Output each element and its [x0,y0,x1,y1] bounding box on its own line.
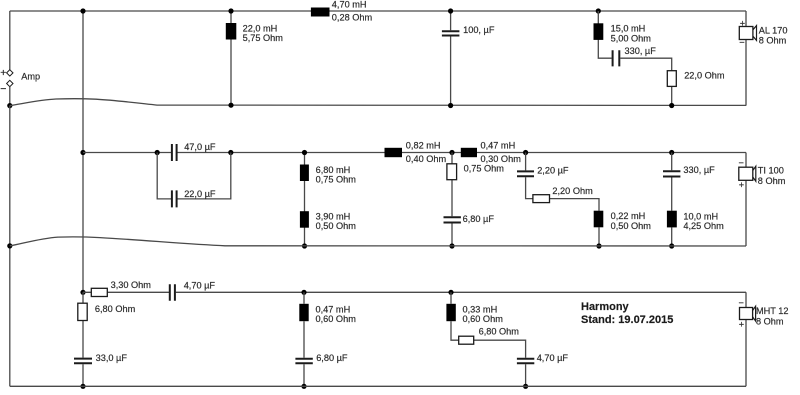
wire feed vertical (top rail to bottom section) [82,11,84,292]
capacitor 100uF wires [450,11,452,106]
node 22 Ohm bottom [669,103,674,108]
svg-text:0,60 Ohm: 0,60 Ohm [463,314,504,324]
amp terminal - (diamond) [7,80,13,86]
capacitor C 47.0uF plates (series) [172,144,177,161]
svg-text:0,33 mH: 0,33 mH [463,304,498,314]
node 100uF top [448,8,453,13]
capacitor C 100uF plates [442,31,460,35]
svg-text:−: − [0,83,6,95]
wire 0.75Ohm/6.8uF branch [451,153,453,247]
capacitor C 4.70uF plates [517,359,534,363]
inductor L 0.22mH body [594,211,604,228]
node middle return left [7,243,12,248]
wire 0.47mH/6.8uF branch [303,292,305,386]
speaker TI 100 cone [753,166,756,181]
inductor L 0.82mH body (series) [385,148,403,157]
svg-text:6,80 µF: 6,80 µF [463,214,495,224]
wire TI100 right drop [745,153,747,247]
node feed middle [80,150,85,155]
resistor R 6.80 Ohm body (horizontal) [459,336,474,344]
svg-text:6,80 µF: 6,80 µF [316,353,348,363]
inductor 15mH branch wires [598,11,671,106]
wire 6.8Ohm/33uF branch [82,292,84,386]
wire MHT12 right drop [745,292,747,386]
svg-text:5,75 Ohm: 5,75 Ohm [243,33,284,43]
inductor 22.0mH wire [230,11,232,105]
node 47uF right [228,150,233,155]
svg-text:4,70 µF: 4,70 µF [537,353,569,363]
svg-text:+: + [0,67,6,79]
svg-text:15,0 mH: 15,0 mH [611,24,646,34]
svg-text:6,80 Ohm: 6,80 Ohm [95,304,136,314]
svg-text:6,80 Ohm: 6,80 Ohm [479,327,520,337]
svg-text:Stand: 19.07.2015: Stand: 19.07.2015 [581,314,673,326]
svg-text:MHT 12: MHT 12 [756,306,789,316]
svg-text:100, µF: 100, µF [463,25,495,35]
resistor R 0.75 Ohm body [447,164,457,180]
wire 2.2uF branch [526,153,599,247]
svg-text:0,75 Ohm: 0,75 Ohm [464,164,505,174]
svg-text:33,0 µF: 33,0 µF [96,353,128,363]
wire 0.33mH branch [451,292,526,386]
svg-text:6,80 mH: 6,80 mH [316,165,351,175]
capacitor C 4.70uF plates (series) [170,284,175,301]
resistor R 2.20 Ohm body [533,195,550,203]
inductor L 0.47mH body [299,304,308,321]
svg-text:−: − [739,298,744,308]
svg-text:8 Ohm: 8 Ohm [756,316,784,326]
svg-text:10,0 mH: 10,0 mH [683,212,718,222]
resistor R 3.30 Ohm body (series) [91,288,107,296]
inductor L 15.0mH body [594,23,604,40]
node 330uF junction [669,150,674,155]
svg-text:+: + [739,319,744,329]
node 4.7uF bottom [523,384,528,389]
wire 330uF/10mH branch [671,153,673,247]
wire left rail lower [9,106,11,387]
svg-text:3,30 Ohm: 3,30 Ohm [111,280,152,290]
wire middle rail [83,152,746,154]
svg-text:0,47 mH: 0,47 mH [316,304,351,314]
svg-text:0,60 Ohm: 0,60 Ohm [316,314,357,324]
capacitor C 330uF plates [663,171,680,176]
svg-text:−: − [739,38,744,48]
svg-text:0,47 mH: 0,47 mH [481,140,516,150]
node feed top [80,8,85,13]
wire amp- stub [9,87,11,106]
svg-text:330, µF: 330, µF [683,165,715,175]
svg-text:+: + [740,19,745,29]
amp terminal + (diamond) [7,70,13,76]
inductor L 10.0mH body [667,211,677,228]
svg-text:22,0 Ohm: 22,0 Ohm [684,71,725,81]
node 6.8mH top [302,150,307,155]
inductor L 0.47mH body (series) [461,148,477,157]
svg-text:0,75 Ohm: 0,75 Ohm [316,175,357,185]
node 100uF bottom [448,103,453,108]
svg-text:330, µF: 330, µF [625,46,657,56]
node 0.47mH top [301,290,306,295]
svg-text:2,20 Ohm: 2,20 Ohm [552,186,593,196]
wire bottom rail [83,291,746,293]
capacitor C 330uF plates (horizontal) [613,50,620,66]
resistor R 22.0 Ohm body [667,71,676,87]
speaker MHT 12 cone [753,306,756,321]
node amp- [7,103,12,108]
capacitor C 33.0uF plates [74,359,92,364]
capacitor C 6.80uF plates [444,217,461,222]
inductor L 22.0mH body [226,23,237,40]
node 2.2uF junction [523,150,528,155]
inductor L 3.90mH body [300,211,309,228]
node mid junction 452 [449,150,454,155]
svg-text:−: − [739,158,744,168]
svg-text:Harmony: Harmony [581,301,630,313]
wire top return (wavy) [10,99,746,106]
node feed bottom [80,290,85,295]
svg-text:0,82 mH: 0,82 mH [406,141,441,151]
resistor R 6.80 Ohm body [78,303,87,320]
svg-text:0,28 Ohm: 0,28 Ohm [332,12,373,22]
inductor L 0.33mH body [446,304,455,321]
node 33uF bottom [80,384,85,389]
svg-text:5,00 Ohm: 5,00 Ohm [611,33,652,43]
wire 6.8mH/3.9mH branch [304,153,306,247]
node 6.8uF bottom [301,384,306,389]
svg-text:0,50 Ohm: 0,50 Ohm [611,221,652,231]
svg-text:22,0 µF: 22,0 µF [184,189,216,199]
svg-text:8 Ohm: 8 Ohm [758,176,786,186]
svg-text:8 Ohm: 8 Ohm [759,36,787,46]
svg-text:2,20 µF: 2,20 µF [537,165,569,175]
wire top rail [10,10,746,12]
node 22mH top [228,8,233,13]
svg-text:47,0 µF: 47,0 µF [184,142,216,152]
inductor L 6.80mH body [300,165,309,182]
svg-text:22,0 mH: 22,0 mH [243,23,278,33]
node 6.8uF bottom [449,243,454,248]
svg-text:AL 170: AL 170 [759,26,788,36]
wire 22uF parallel loop [157,153,231,199]
svg-text:0,22 mH: 0,22 mH [611,211,646,221]
svg-text:0,40 Ohm: 0,40 Ohm [406,154,447,164]
svg-text:3,90 mH: 3,90 mH [316,212,351,222]
svg-text:4,25 Ohm: 4,25 Ohm [683,221,724,231]
node 15mH top [596,8,601,13]
speaker AL 170 box [739,27,753,40]
node 0.22mH bottom [596,243,601,248]
node 47uF left [155,150,160,155]
wire AL170 right drop [745,11,747,106]
svg-text:0,50 Ohm: 0,50 Ohm [316,221,357,231]
capacitor C 2.20uF plates [517,171,534,176]
wire left rail upper (amp+ to top rail) [9,11,11,70]
speaker MHT 12 box [740,308,753,320]
inductor L 4.70mH body (series, on top rail) [311,8,330,17]
svg-text:0,30 Ohm: 0,30 Ohm [481,154,522,164]
capacitor C 22.0uF plates [172,190,177,207]
node 3.9mH bottom [302,243,307,248]
svg-text:4,70 mH: 4,70 mH [332,0,367,9]
capacitor C 6.80uF plates [295,359,312,363]
svg-text:Amp: Amp [21,71,40,81]
wire bottom return [10,385,746,387]
speaker TI 100 box [739,167,753,180]
wire middle return (wavy) [10,237,746,246]
svg-text:4,70 µF: 4,70 µF [184,281,216,291]
node 10mH bottom [669,243,674,248]
node 0.33mH top [448,290,453,295]
speaker AL 170 cone [753,26,757,41]
svg-text:+: + [739,180,744,190]
node 22mH bottom [228,103,233,108]
svg-text:TI 100: TI 100 [758,166,784,176]
